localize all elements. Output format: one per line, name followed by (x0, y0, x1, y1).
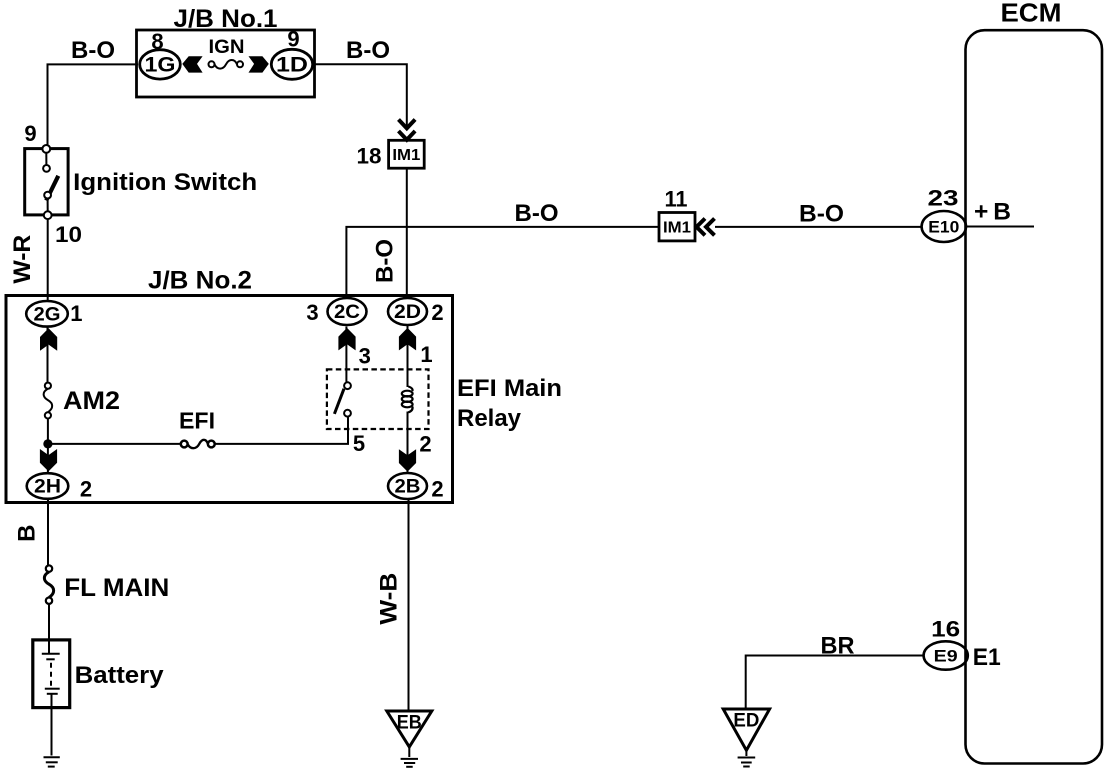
connector 1D (271, 49, 312, 79)
svg-text:IGN: IGN (209, 37, 245, 58)
svg-text:E10: E10 (928, 218, 959, 237)
svg-text:2C: 2C (334, 302, 360, 323)
svg-text:EFI: EFI (179, 408, 215, 434)
svg-text:IM1: IM1 (392, 147, 420, 164)
svg-text:B-O: B-O (515, 200, 559, 227)
wire BR from ED to E9 (746, 656, 924, 710)
arrow up (into 2C) (338, 328, 355, 351)
svg-text:E1: E1 (973, 644, 1001, 671)
fuse EFI (181, 440, 215, 448)
svg-text:AM2: AM2 (63, 387, 120, 415)
connector E9 (924, 641, 968, 669)
J/B No.2 box (6, 296, 453, 503)
svg-text:B-O: B-O (346, 37, 390, 64)
svg-text:2: 2 (419, 432, 431, 457)
ground symbol (ED) (738, 750, 756, 766)
svg-text:Relay: Relay (457, 405, 522, 432)
splice arrows (double chevron left) (697, 219, 715, 236)
wire B-O from ignition switch to J/B No.1 (48, 64, 139, 145)
relay coil (402, 387, 413, 413)
wire AM2 to junction (47, 419, 49, 446)
svg-text:EFI Main: EFI Main (457, 375, 562, 402)
wire W-R ignition switch to 2G (47, 219, 49, 301)
svg-text:B-O: B-O (71, 37, 115, 64)
wire B-O from 2C riser to IM1 11 (346, 227, 659, 299)
svg-text:2H: 2H (34, 477, 61, 498)
pin stub +B (966, 226, 1034, 228)
svg-text:1G: 1G (145, 54, 176, 77)
svg-text:Ignition Switch: Ignition Switch (73, 169, 257, 196)
svg-text:J/B No.2: J/B No.2 (148, 267, 252, 295)
ground triangle ED (723, 709, 769, 750)
relay switch (334, 382, 351, 416)
svg-text:5: 5 (353, 431, 365, 456)
arrow right (current direction) (249, 56, 269, 72)
fuse IGN (209, 60, 244, 69)
connector 2H (27, 473, 69, 499)
arrow up (into 2D) (399, 328, 416, 351)
svg-text:11: 11 (665, 187, 688, 212)
wire 2C to relay switch (345, 327, 347, 383)
svg-text:2D: 2D (394, 302, 421, 323)
svg-text:W-R: W-R (9, 235, 36, 284)
wire relay coil to 2B (407, 412, 409, 475)
arrow down (into 2H) (40, 449, 57, 471)
arrow left (current direction) (182, 56, 202, 72)
svg-text:W-B: W-B (375, 573, 402, 625)
svg-text:B-O: B-O (372, 239, 399, 283)
svg-text:ECM: ECM (1001, 0, 1062, 28)
svg-text:9: 9 (24, 121, 36, 146)
svg-text:B: B (13, 525, 40, 542)
svg-text:IM1: IM1 (663, 220, 691, 237)
wire 2D to relay coil (407, 325, 409, 387)
wire from IM1 18 down to 2D (406, 168, 408, 299)
J/B No.1 box (137, 30, 315, 97)
wire battery to ground (51, 694, 53, 756)
svg-text:ED: ED (733, 711, 759, 732)
connector 2B (388, 473, 427, 499)
svg-text:1D: 1D (276, 54, 308, 77)
connector 1G (140, 50, 181, 79)
wire 2G to AM2 fuse (47, 327, 49, 383)
svg-text:E9: E9 (934, 647, 958, 666)
arrow up (into 2G) (40, 328, 57, 351)
EFI Main Relay dashed box (327, 369, 429, 429)
svg-text:+ B: + B (974, 199, 1011, 226)
fuse AM2 (44, 383, 53, 419)
junction node (43, 439, 52, 448)
wire B-O from splice to ECM E10 (715, 226, 922, 228)
svg-text:1: 1 (70, 301, 82, 326)
svg-text:1: 1 (420, 342, 432, 367)
wire 2H to FL MAIN (47, 499, 49, 566)
svg-text:B-O: B-O (799, 200, 844, 227)
ignition switch box (25, 149, 68, 215)
arrow down (into 2B) (399, 449, 416, 471)
wire EFI row from junction (48, 443, 180, 445)
svg-text:Battery: Battery (75, 662, 165, 689)
svg-text:16: 16 (931, 616, 960, 641)
wire W-B from 2B to EB (408, 499, 410, 711)
label EFI Main Relay (457, 375, 562, 432)
connector 2C (328, 298, 367, 325)
svg-text:2: 2 (80, 477, 92, 502)
ground triangle EB (387, 711, 432, 747)
svg-text:2: 2 (431, 300, 443, 325)
fuse FL MAIN (fusible link) (44, 565, 53, 604)
svg-text:BR: BR (821, 633, 855, 660)
wire EFI fuse to relay switch pin 5 (214, 417, 348, 444)
connector IM1 (18) (389, 140, 425, 168)
svg-text:EB: EB (397, 713, 422, 734)
svg-text:3: 3 (359, 344, 371, 369)
ground (battery) (44, 757, 60, 766)
splice arrows (double chevron down) (399, 120, 416, 140)
svg-text:10: 10 (55, 222, 82, 247)
svg-text:23: 23 (928, 186, 959, 211)
wire B-O from 1D down to IM1 (313, 64, 407, 127)
wire FL MAIN to battery (48, 604, 50, 653)
svg-text:2: 2 (431, 477, 443, 502)
connector 2G (26, 301, 68, 327)
svg-text:9: 9 (287, 27, 299, 52)
ground symbol (EB) (401, 747, 418, 767)
connector 2D (388, 298, 427, 325)
svg-text:FL MAIN: FL MAIN (64, 574, 169, 602)
svg-text:J/B No.1: J/B No.1 (174, 5, 278, 33)
wire junction to 2H (47, 444, 49, 474)
battery (33, 640, 70, 708)
ignition switch contacts and lever (42, 145, 58, 219)
svg-text:2G: 2G (34, 305, 61, 326)
connector IM1 (11) (659, 213, 695, 241)
svg-text:18: 18 (357, 144, 382, 169)
connector E10 (922, 211, 966, 242)
svg-text:3: 3 (306, 300, 318, 325)
svg-text:2B: 2B (395, 477, 421, 498)
ECM box (966, 30, 1103, 763)
